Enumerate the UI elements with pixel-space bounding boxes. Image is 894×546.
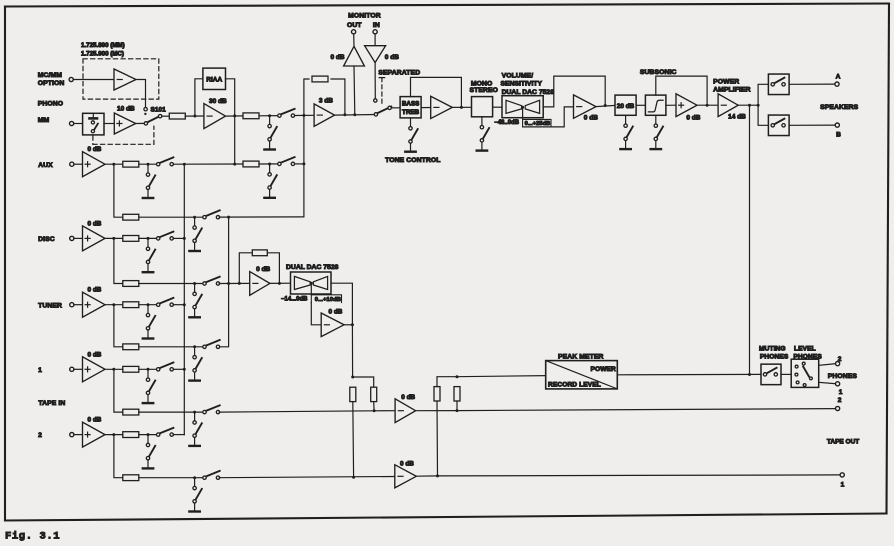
RIAA equalizer box <box>203 68 226 89</box>
wire speaker branch B <box>758 105 768 125</box>
node DISC out junction <box>112 237 115 240</box>
svg-text:TAPE OUT: TAPE OUT <box>827 438 859 445</box>
op-amp 30 dB phono <box>204 104 226 129</box>
wire <box>353 66 356 115</box>
svg-text:SPEAKERS: SPEAKERS <box>820 104 859 111</box>
resistor DISC row <box>123 236 139 242</box>
switch subsonic to ground <box>651 115 663 149</box>
node power out junction <box>748 104 751 107</box>
node B junction <box>233 114 236 117</box>
muting phones switch box <box>761 364 781 385</box>
wire power to muting <box>749 105 751 374</box>
wire <box>456 401 458 411</box>
dashed separated link <box>379 77 384 79</box>
node 2 record mute junction <box>193 476 196 479</box>
svg-text:−14...0dB: −14...0dB <box>281 297 308 303</box>
resistor divider 1 right <box>371 387 377 401</box>
dashed enclosure MM module <box>92 136 94 144</box>
svg-text:0 dB: 0 dB <box>88 220 102 227</box>
wire <box>173 304 184 306</box>
svg-text:3 dB: 3 dB <box>319 98 333 105</box>
wire <box>259 115 279 117</box>
wire <box>374 34 376 46</box>
wire <box>219 282 250 284</box>
svg-text:0 dB: 0 dB <box>401 394 415 401</box>
node divider 2 top junction <box>456 375 459 378</box>
wire <box>219 216 304 218</box>
wire <box>457 376 546 377</box>
svg-text:PHONES: PHONES <box>828 373 858 380</box>
wire record out down <box>351 325 353 377</box>
wire bus2 <box>220 217 229 347</box>
node DISC bus1 junction <box>183 237 186 240</box>
svg-text:IN: IN <box>373 22 380 29</box>
svg-text:0...+10dB: 0...+10dB <box>315 297 341 303</box>
switch DISC record select <box>203 277 220 285</box>
wire <box>105 237 123 239</box>
terminal speaker A <box>835 82 839 86</box>
op-amp 1 input buffer <box>83 357 106 382</box>
wire <box>522 107 524 119</box>
wire TUNER to record row <box>114 305 123 347</box>
wire <box>344 324 352 326</box>
op-amp 2 input buffer <box>83 422 106 447</box>
wire 3dB feedback <box>304 79 309 115</box>
wire <box>789 124 835 126</box>
resistor DISC record <box>123 281 139 287</box>
switch AUX select <box>157 157 174 166</box>
subsonic filter box <box>645 95 666 115</box>
terminal DISC input <box>70 236 74 240</box>
switch 1 record select <box>203 405 220 414</box>
svg-text:POWER: POWER <box>713 79 739 86</box>
relay speaker A <box>768 74 789 95</box>
wire <box>738 104 758 106</box>
wire <box>421 107 431 109</box>
svg-text:2: 2 <box>838 397 842 404</box>
node tone bypass junction <box>460 106 463 109</box>
node AUX bus1 junction <box>183 163 186 166</box>
switch S101 upper contact <box>144 108 147 111</box>
node monitor-out junction <box>343 113 346 116</box>
op-amp AUX input buffer <box>83 152 106 177</box>
wire divider 2 left down <box>436 401 439 476</box>
svg-text:0 dB: 0 dB <box>88 287 102 294</box>
svg-text:MONITOR: MONITOR <box>348 12 381 19</box>
wire <box>636 104 645 106</box>
node 2 out junction <box>112 433 115 436</box>
resistor record amp feedback <box>252 250 267 256</box>
op-amp driver <box>676 94 697 117</box>
op-amp volume <box>574 95 597 118</box>
node DISC mute junction <box>147 237 150 240</box>
node 2 mute junction <box>147 433 150 436</box>
wire divider 1 bridge <box>353 377 374 387</box>
resistor divider 2 right <box>454 387 460 401</box>
node AUX record mute junction <box>193 216 196 219</box>
node record amp out junction <box>278 282 281 285</box>
wire <box>353 34 355 46</box>
svg-text:Fig. 3.1: Fig. 3.1 <box>5 531 60 543</box>
op-amp tape out 1 <box>395 465 417 488</box>
switch AUX mute to ground <box>143 164 155 198</box>
BASS TREB tone box <box>400 97 421 118</box>
wire record DAC out <box>331 283 352 325</box>
switch 20dB to ground <box>620 115 632 149</box>
wire RIAA feedback down <box>226 79 235 116</box>
switch S101 selector <box>144 115 162 126</box>
wire <box>781 373 791 375</box>
svg-text:MUTING: MUTING <box>759 346 786 353</box>
svg-text:MM: MM <box>38 117 50 124</box>
node AUX mute junction <box>147 163 150 166</box>
node DISC record mute junction <box>193 282 196 285</box>
svg-text:SEPARATED: SEPARATED <box>378 69 420 76</box>
resistor phono series <box>169 113 185 119</box>
node 1 out junction <box>112 368 115 371</box>
node AUX mute 2 junction <box>268 163 271 166</box>
record DUAL DAC 7528 box <box>291 272 332 294</box>
wire AUX to record row <box>114 164 123 217</box>
wire <box>105 163 123 165</box>
svg-text:AUX: AUX <box>38 162 53 169</box>
peak meter box <box>546 361 618 389</box>
wire to AUX bus <box>234 116 236 164</box>
node volume DAC wiper <box>521 106 524 109</box>
wire <box>139 304 158 306</box>
wire <box>226 115 244 117</box>
wire <box>139 411 205 413</box>
svg-text:2: 2 <box>838 356 842 363</box>
wire <box>219 411 374 412</box>
terminal tape out 1 <box>840 473 844 477</box>
svg-text:RECORD LEVEL: RECORD LEVEL <box>548 382 601 389</box>
wire <box>270 282 291 284</box>
svg-text:1.725.890 (MM): 1.725.890 (MM) <box>81 42 125 49</box>
resistor divider 2 left <box>434 387 440 401</box>
svg-text:1: 1 <box>841 481 845 488</box>
wire <box>311 303 321 325</box>
switch 2 select <box>157 428 174 437</box>
svg-text:−48..0dB: −48..0dB <box>494 120 520 126</box>
wire <box>74 237 83 239</box>
node 1 record mute junction <box>193 411 196 414</box>
switch TUNER record select <box>203 340 220 348</box>
dashed enclosure MC/MM option module <box>83 59 159 99</box>
op-amp record monitor <box>321 313 344 337</box>
wire tone bypass <box>411 77 462 107</box>
wire <box>374 410 395 412</box>
wire divider 1 left down <box>352 402 355 478</box>
op-amp monitor in <box>365 46 386 63</box>
node subsonic bypass junction <box>706 104 709 107</box>
svg-text:MC/MM: MC/MM <box>38 72 63 79</box>
svg-text:1: 1 <box>839 389 843 396</box>
wire <box>173 434 184 436</box>
wire <box>162 115 170 117</box>
switch 2 record mute to ground <box>189 478 201 512</box>
wire <box>139 477 205 479</box>
svg-text:PEAK METER: PEAK METER <box>558 353 604 360</box>
svg-text:0 dB: 0 dB <box>256 266 270 273</box>
switch AUX record mute to ground <box>189 217 201 251</box>
wire <box>173 163 243 165</box>
switch AUX mute 2 to ground <box>264 164 276 198</box>
terminal phones 1 <box>836 382 840 386</box>
switch AUX record select <box>203 210 220 219</box>
node AUX bus3 junction <box>302 162 305 165</box>
wire 1 to record row <box>114 369 123 412</box>
switch mute phono to ground <box>264 116 276 150</box>
wire <box>666 104 676 106</box>
terminal TUNER input <box>70 303 74 307</box>
svg-text:TONE CONTROL: TONE CONTROL <box>385 157 440 164</box>
wire <box>789 83 835 85</box>
node 1 bus1 junction <box>183 368 186 371</box>
wire <box>74 123 83 125</box>
wire <box>173 368 184 370</box>
wire <box>105 434 123 436</box>
wire <box>105 368 123 370</box>
node record bus2 top junction <box>227 216 230 219</box>
svg-text:VOLUME/: VOLUME/ <box>502 72 534 79</box>
node TUNER out junction <box>112 303 115 306</box>
svg-text:RIAA: RIAA <box>206 77 222 84</box>
wire <box>416 410 457 412</box>
monitor in contact <box>374 99 377 102</box>
volume gain range box 0..+25dB <box>523 119 551 127</box>
wire <box>74 434 83 436</box>
record gain range box 0..+10dB <box>311 295 341 303</box>
op-amp tape out 2 <box>395 399 416 423</box>
node record DAC wiper <box>310 282 313 285</box>
svg-text:0 dB: 0 dB <box>329 308 343 315</box>
svg-text:2: 2 <box>38 432 42 439</box>
switch 1 record mute to ground <box>189 412 201 446</box>
20 dB box <box>615 95 636 115</box>
svg-text:PHONES: PHONES <box>760 353 789 360</box>
wire speaker branch A <box>758 84 768 105</box>
svg-text:A: A <box>836 73 841 80</box>
terminal speaker B <box>835 123 839 127</box>
wire 2 to record row <box>114 435 123 478</box>
wire <box>173 237 184 239</box>
node volume out junction <box>604 104 607 107</box>
resistor 1 record <box>123 409 139 415</box>
wire <box>310 283 312 295</box>
switch mono/stereo to ground <box>477 117 489 151</box>
op-amp U1 MC/MM option <box>114 69 136 90</box>
wire <box>391 107 400 109</box>
terminal 2 input <box>70 433 74 437</box>
wire <box>139 237 158 239</box>
op-amp record level <box>250 272 270 296</box>
wire <box>596 105 615 106</box>
wire DISC to record row <box>114 238 123 283</box>
svg-text:DUAL DAC 7528: DUAL DAC 7528 <box>286 264 339 271</box>
op-amp tone <box>431 96 453 118</box>
wire <box>219 477 395 478</box>
switch AUX series 2 <box>278 157 295 165</box>
resistor AUX row <box>123 161 139 167</box>
wire bus3 <box>303 115 305 216</box>
wire <box>104 123 114 125</box>
svg-text:1: 1 <box>38 367 42 374</box>
level phones selector box <box>791 359 819 387</box>
svg-text:S101: S101 <box>151 106 167 113</box>
op-amp 10 dB MM <box>114 113 135 134</box>
switch 1 select <box>157 363 174 371</box>
svg-text:0 dB: 0 dB <box>385 54 399 61</box>
wire <box>295 114 315 116</box>
resistor divider 1 left <box>350 387 356 401</box>
resistor AUX row 2 <box>243 161 259 167</box>
svg-text:10 dB: 10 dB <box>117 106 135 113</box>
node record out junction <box>351 323 354 326</box>
svg-text:14 dB: 14 dB <box>728 113 746 120</box>
resistor TUNER row <box>123 302 139 308</box>
MM input network box <box>83 113 104 135</box>
svg-text:30 dB: 30 dB <box>209 98 227 105</box>
node S101 arrow <box>144 113 146 115</box>
svg-text:0 dB: 0 dB <box>686 114 700 121</box>
resistor 1 row <box>123 366 139 372</box>
terminal tape out 2 <box>836 406 840 410</box>
wire <box>452 106 471 108</box>
wire <box>819 364 836 366</box>
wire RIAA feedback up <box>195 79 203 116</box>
svg-text:TREB: TREB <box>402 109 420 116</box>
resistor phono row <box>243 113 259 119</box>
switch 2 mute to ground <box>143 435 155 469</box>
wire volume DAC out loop <box>543 76 605 107</box>
switch TUNER record mute to ground <box>189 347 201 381</box>
MONO/STEREO box <box>472 97 493 117</box>
op-amp power amplifier <box>718 94 738 117</box>
svg-text:0 dB: 0 dB <box>400 461 414 468</box>
svg-text:SUBSONIC: SUBSONIC <box>640 69 677 76</box>
svg-text:TAPE IN: TAPE IN <box>38 400 65 407</box>
wire <box>74 304 83 306</box>
svg-text:LEVEL: LEVEL <box>794 346 816 353</box>
wire <box>139 163 158 165</box>
wire <box>139 283 205 285</box>
wire <box>139 216 205 218</box>
resistor 2 row <box>123 432 139 438</box>
svg-text:POWER: POWER <box>591 366 617 373</box>
svg-text:SENSITIVITY: SENSITIVITY <box>501 81 543 88</box>
node TUNER record mute junction <box>193 345 196 348</box>
svg-text:0 dB: 0 dB <box>584 114 598 121</box>
svg-text:0 dB: 0 dB <box>88 146 102 153</box>
wire <box>523 107 574 127</box>
node muting junction <box>748 373 751 376</box>
svg-text:0 dB: 0 dB <box>88 351 102 358</box>
svg-text:20 dB: 20 dB <box>617 103 635 110</box>
svg-text:B: B <box>836 131 841 138</box>
node divider 1 junction <box>373 409 376 412</box>
node A junction <box>193 115 196 118</box>
wire <box>819 382 836 383</box>
op-amp TUNER input buffer <box>83 292 106 317</box>
wire <box>105 304 123 306</box>
switch phono series <box>278 109 295 118</box>
wire record amp feedback <box>239 253 252 284</box>
terminal MC/MM input <box>69 77 73 81</box>
wire <box>73 79 114 81</box>
volume DUAL DAC 7528 box <box>502 96 543 118</box>
wire <box>373 402 375 411</box>
wire <box>259 163 279 165</box>
wire <box>139 346 205 348</box>
svg-text:AMPLIFIER: AMPLIFIER <box>713 87 751 94</box>
node AUX out junction <box>112 163 115 166</box>
resistor TUNER record <box>123 344 139 350</box>
op-amp DISC input buffer <box>83 226 106 251</box>
switch DISC mute to ground <box>143 238 155 272</box>
wire <box>617 373 761 375</box>
svg-text:1.725.900 (MC): 1.725.900 (MC) <box>81 50 124 57</box>
terminal MONITOR OUT <box>352 30 356 34</box>
resistor 3dB feedback <box>312 76 328 82</box>
switch TUNER select <box>157 298 174 307</box>
wire tape out 2 line <box>457 409 836 411</box>
wire subsonic bypass <box>656 76 707 105</box>
op-amp 3 dB <box>314 104 335 127</box>
node monitor-in junction <box>353 113 356 116</box>
wire <box>416 475 437 477</box>
node TUNER mute junction <box>147 303 150 306</box>
svg-text:OUT: OUT <box>347 22 362 29</box>
switch DISC record mute to ground <box>189 284 201 318</box>
relay speaker B <box>768 115 789 136</box>
svg-text:TUNER: TUNER <box>38 302 62 309</box>
svg-text:DISC: DISC <box>38 236 55 243</box>
svg-text:PHONO: PHONO <box>38 101 63 108</box>
switch tone defeat to ground <box>405 118 417 152</box>
resistor 2 record <box>123 475 139 481</box>
wire <box>374 63 376 99</box>
node record amp in junction <box>238 282 241 285</box>
node speaker branch junction <box>757 104 760 107</box>
terminal AUX input <box>70 162 74 166</box>
switch DISC select <box>157 232 174 240</box>
svg-text:DUAL DAC 7528: DUAL DAC 7528 <box>502 89 555 96</box>
wire <box>493 106 502 108</box>
switch 1 mute to ground <box>143 369 155 403</box>
svg-text:0 dB: 0 dB <box>331 54 345 61</box>
terminal MM input <box>70 121 74 125</box>
op-amp monitor out <box>344 46 365 66</box>
switch TUNER mute to ground <box>143 305 155 339</box>
wire <box>74 163 83 165</box>
wire bus1 <box>183 164 185 434</box>
svg-text:BASS: BASS <box>402 101 420 108</box>
node divider 1 top junction <box>351 376 354 379</box>
node bus3 top junction <box>302 114 305 117</box>
wire <box>136 80 146 108</box>
node record bus2 junction <box>227 282 230 285</box>
svg-text:STEREO: STEREO <box>470 87 499 94</box>
wire <box>136 122 145 124</box>
node TUNER bus1 junction <box>183 303 186 306</box>
wire <box>335 114 376 117</box>
node divider 2 junction <box>456 409 459 412</box>
node tape out 1 junction <box>436 474 439 477</box>
wire <box>74 368 83 370</box>
terminal 1 input <box>70 367 74 371</box>
wire divider 2 bridge <box>437 377 457 387</box>
